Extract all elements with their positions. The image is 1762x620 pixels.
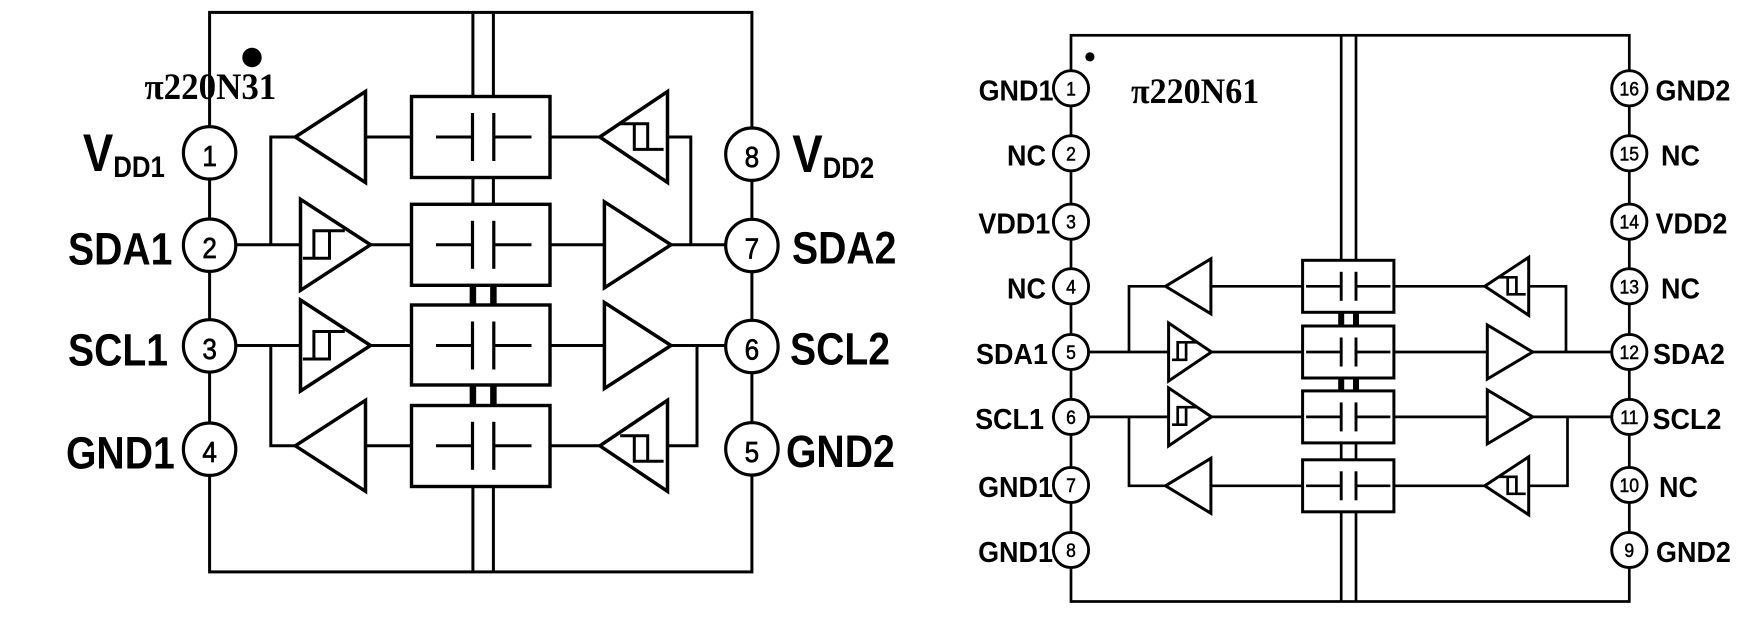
schmitt buffer A2 (right-pointing, row2) (301, 199, 371, 290)
svg-text:π220N61: π220N61 (1131, 71, 1259, 111)
outer box U1 (pi220N31 isolator body) (210, 12, 752, 572)
svg-text:GND1: GND1 (978, 471, 1053, 503)
capacitor C8 left plate (1340, 471, 1343, 500)
capacitor C3 left plate (471, 322, 474, 370)
capacitor C5 right lead (1356, 285, 1390, 288)
wire schmitt B1 input from SDA2 net (668, 137, 691, 245)
barrier thick segment between C6 and C7 (1338, 377, 1344, 392)
wire row4 feedback: buffer A4 output up to SCL1 net (271, 346, 296, 446)
wire capacitor C1 to schmitt B1 output (550, 136, 600, 139)
svg-text:SCL2: SCL2 (1653, 403, 1722, 435)
svg-text:SDA2: SDA2 (792, 223, 896, 273)
schmitt E4 hysteresis symbol (1498, 477, 1526, 494)
capacitor C4 right plate (492, 422, 495, 470)
isolation barrier right line (492, 12, 495, 572)
schmitt B1 hysteresis symbol (620, 124, 663, 150)
svg-text:8: 8 (745, 141, 760, 174)
barrier thick segment between C5 and C6 (1338, 311, 1344, 327)
svg-text:2: 2 (202, 232, 217, 265)
schmitt A3 hysteresis symbol (303, 332, 345, 360)
svg-text:11: 11 (1620, 406, 1638, 428)
capacitor C4 left lead (436, 444, 471, 447)
svg-text:GND2: GND2 (1656, 536, 1731, 568)
isolation capacitor block C6 box (1303, 326, 1394, 378)
svg-text:VDD1: VDD1 (83, 124, 165, 184)
svg-text:NC: NC (1007, 139, 1046, 171)
isolation barrier right line (right diagram) (1355, 35, 1358, 601)
schmitt buffer E4 (left-pointing, row4) (1485, 457, 1529, 515)
capacitor C2 left plate (471, 221, 474, 269)
wire capacitor C2 to buffer B2 input (550, 243, 604, 246)
wire schmitt E1 input from SDA2 net (1529, 286, 1566, 352)
buffer E2 (right-pointing, row2) (1487, 325, 1532, 379)
barrier thick segment between C2 and C3 (470, 284, 477, 307)
isolation capacitor block C1 box (412, 97, 551, 178)
svg-text:6: 6 (1066, 406, 1076, 428)
svg-text:13: 13 (1620, 275, 1640, 297)
wire row4: buffer A4 input from capacitor C4 (366, 444, 412, 447)
svg-text:14: 14 (1620, 211, 1640, 233)
pin 14 circle (1612, 204, 1647, 239)
capacitor C3 left lead (436, 344, 471, 347)
schmitt buffer D3 (right-pointing, row3) (1169, 388, 1212, 446)
svg-text:7: 7 (1066, 474, 1076, 496)
schmitt D3 hysteresis symbol (1172, 407, 1198, 425)
pin 7 circle (1053, 467, 1088, 502)
wire capacitor C4 to schmitt B4 output (550, 444, 600, 447)
capacitor C8 left lead (1306, 484, 1341, 487)
svg-text:GND1: GND1 (978, 536, 1053, 568)
wire schmitt B4 input from SCL2 net (668, 346, 698, 446)
pin 3 circle (1053, 204, 1088, 239)
buffer E3 (right-pointing, row3) (1487, 390, 1532, 444)
capacitor C7 left lead (1306, 416, 1341, 419)
schmitt buffer B1 (left-pointing, row1) (600, 92, 668, 183)
capacitor C4 left plate (471, 422, 474, 470)
buffer B3 (right-pointing, row3) (604, 303, 671, 389)
wire buffer D1 input from capacitor C5 (1211, 285, 1303, 288)
wire capacitor C5 to schmitt E1 output (1394, 285, 1485, 288)
svg-text:GND2: GND2 (786, 426, 895, 476)
svg-text:SCL1: SCL1 (68, 325, 168, 375)
svg-text:GND1: GND1 (979, 74, 1054, 106)
isolation capacitor block C3 box (412, 305, 551, 385)
wire schmitt A3 output to capacitor C3 (371, 344, 412, 347)
svg-text:4: 4 (202, 436, 217, 469)
polarity dot marker (pin1, left diagram) (242, 48, 261, 67)
pin 4 circle (1053, 269, 1088, 304)
wire schmitt D3 output to capacitor C7 (1212, 416, 1303, 419)
svg-text:π220N31: π220N31 (145, 66, 277, 107)
capacitor C1 left plate (471, 113, 474, 161)
wire row1 feedback: buffer D1 output down to SDA1 net (1129, 286, 1166, 352)
capacitor C5 left plate (1340, 272, 1343, 301)
pin 6 circle (726, 320, 778, 372)
svg-text:5: 5 (745, 436, 760, 469)
wire capacitor C3 to buffer B3 input (550, 344, 604, 347)
pin 2 circle (183, 219, 235, 271)
pin 9 circle (1612, 532, 1647, 567)
svg-text:16: 16 (1620, 77, 1640, 99)
svg-text:7: 7 (745, 232, 760, 265)
wire row1: buffer A1 input from capacitor C1 (366, 136, 412, 139)
wire buffer E2 output to SDA2 pin12 (1533, 351, 1612, 354)
capacitor C2 left lead (436, 243, 471, 246)
svg-text:NC: NC (1659, 471, 1698, 503)
wire buffer E3 output to SCL2 pin11 (1533, 416, 1612, 419)
capacitor C2 right lead (495, 243, 532, 246)
schmitt B4 hysteresis symbol (620, 436, 663, 462)
svg-text:SCL1: SCL1 (975, 403, 1044, 435)
svg-text:NC: NC (1661, 272, 1700, 304)
svg-text:GND2: GND2 (1656, 74, 1731, 106)
capacitor C6 right lead (1356, 351, 1390, 354)
svg-text:12: 12 (1620, 341, 1640, 363)
wire buffer D4 input from capacitor C8 (1211, 484, 1303, 487)
svg-text:3: 3 (202, 333, 217, 366)
capacitor C5 right plate (1355, 272, 1358, 301)
wire schmitt E4 input from SCL2 net (1529, 417, 1568, 486)
svg-text:SDA1: SDA1 (976, 338, 1048, 370)
barrier thick segment between C3 and C4 (470, 384, 477, 408)
pin 12 circle (1612, 334, 1647, 369)
buffer D4 (left-pointing, row4) (1166, 458, 1211, 513)
capacitor C7 right lead (1356, 416, 1390, 419)
pin 6 circle (1053, 399, 1088, 434)
isolation capacitor block C2 box (412, 204, 551, 285)
svg-text:NC: NC (1007, 272, 1046, 304)
wire capacitor C8 to schmitt E4 output (1394, 484, 1485, 487)
svg-text:GND1: GND1 (66, 428, 175, 478)
capacitor C2 right plate (492, 221, 495, 269)
svg-text:SCL2: SCL2 (790, 324, 890, 374)
isolation capacitor block C4 box (412, 406, 551, 487)
svg-text:1: 1 (1066, 77, 1076, 99)
buffer D1 (left-pointing, row1) (1166, 259, 1211, 314)
wire SDA1 pin2 to schmitt A2 input (235, 243, 301, 246)
capacitor C8 right lead (1356, 484, 1390, 487)
capacitor C6 left plate (1340, 338, 1343, 367)
wire buffer B2 output to SDA2 pin7 (671, 243, 727, 246)
wire schmitt A2 output to capacitor C2 (371, 243, 412, 246)
svg-text:SDA2: SDA2 (1653, 338, 1725, 370)
buffer B2 (right-pointing, row2) (604, 202, 671, 288)
schmitt buffer B4 (left-pointing, row4) (600, 400, 668, 491)
polarity dot marker (pin1, right diagram) (1085, 52, 1094, 61)
capacitor C3 right lead (495, 344, 532, 347)
pin 13 circle (1612, 269, 1647, 304)
buffer A1 (left-pointing, row1) (295, 92, 365, 183)
svg-text:4: 4 (1066, 275, 1076, 297)
wire capacitor C7 to buffer E3 input (1394, 416, 1487, 419)
pin 8 circle (1053, 532, 1088, 567)
svg-text:SDA1: SDA1 (68, 224, 172, 274)
svg-text:VDD2: VDD2 (792, 125, 874, 185)
svg-text:VDD1: VDD1 (978, 208, 1050, 240)
schmitt A2 hysteresis symbol (303, 231, 345, 258)
capacitor C5 left lead (1306, 285, 1341, 288)
svg-text:1: 1 (202, 140, 217, 173)
isolation barrier left line (right diagram) (1340, 35, 1343, 601)
svg-text:8: 8 (1066, 539, 1076, 561)
pin 1 circle (183, 127, 235, 179)
isolation capacitor block C7 box (1303, 391, 1394, 443)
schmitt buffer A3 (right-pointing, row3) (301, 300, 371, 391)
capacitor C7 right plate (1355, 402, 1358, 431)
wire row1 feedback: buffer A1 output down to SDA1 net (271, 137, 296, 245)
pin 7 circle (726, 219, 778, 271)
pin 8 circle (726, 128, 778, 180)
outer box U2 (pi220N61 isolator body) (1071, 35, 1629, 601)
pin 5 circle (1053, 334, 1088, 369)
pin 2 circle (1053, 136, 1088, 171)
svg-text:6: 6 (745, 333, 760, 366)
isolation capacitor block C5 box (1303, 260, 1394, 312)
svg-text:VDD2: VDD2 (1656, 208, 1728, 240)
schmitt buffer E1 (left-pointing, row1) (1485, 257, 1529, 315)
pin 11 circle (1612, 399, 1647, 434)
isolation barrier left line (471, 12, 474, 572)
capacitor C1 right plate (492, 113, 495, 161)
svg-text:15: 15 (1620, 142, 1640, 164)
wire schmitt D2 output to capacitor C6 (1212, 351, 1303, 354)
wire SDA1 pin5 to schmitt D2 input (1089, 351, 1169, 354)
capacitor C6 right plate (1355, 338, 1358, 367)
pin 10 circle (1612, 467, 1647, 502)
svg-text:2: 2 (1066, 142, 1076, 164)
pin 3 circle (183, 320, 235, 372)
svg-text:9: 9 (1624, 539, 1634, 561)
capacitor C6 left lead (1306, 351, 1341, 354)
capacitor C1 right lead (495, 136, 532, 139)
wire row4 feedback: buffer D4 output up to SCL1 net (1129, 417, 1166, 486)
svg-text:5: 5 (1066, 341, 1076, 363)
pin 5 circle (726, 423, 778, 475)
pin 16 circle (1612, 71, 1647, 106)
capacitor C1 left lead (436, 136, 471, 139)
wire buffer B3 output to SCL2 pin6 (671, 344, 727, 347)
svg-text:3: 3 (1066, 211, 1076, 233)
isolation capacitor block C8 box (1303, 460, 1394, 512)
schmitt buffer D2 (right-pointing, row2) (1169, 323, 1212, 381)
capacitor C7 left plate (1340, 402, 1343, 431)
pin 15 circle (1612, 136, 1647, 171)
buffer A4 (left-pointing, row4) (295, 400, 365, 491)
capacitor C4 right lead (495, 444, 532, 447)
wire SCL1 pin6 to schmitt D3 input (1089, 416, 1169, 419)
svg-text:NC: NC (1661, 139, 1700, 171)
capacitor C3 right plate (492, 322, 495, 370)
capacitor C8 right plate (1355, 471, 1358, 500)
svg-text:10: 10 (1620, 474, 1640, 496)
schmitt D2 hysteresis symbol (1172, 342, 1198, 360)
pin 4 circle (183, 423, 235, 475)
pin 1 circle (1053, 71, 1088, 106)
wire capacitor C6 to buffer E2 input (1394, 351, 1487, 354)
schmitt E1 hysteresis symbol (1498, 277, 1526, 294)
wire SCL1 pin3 to schmitt A3 input (235, 344, 301, 347)
